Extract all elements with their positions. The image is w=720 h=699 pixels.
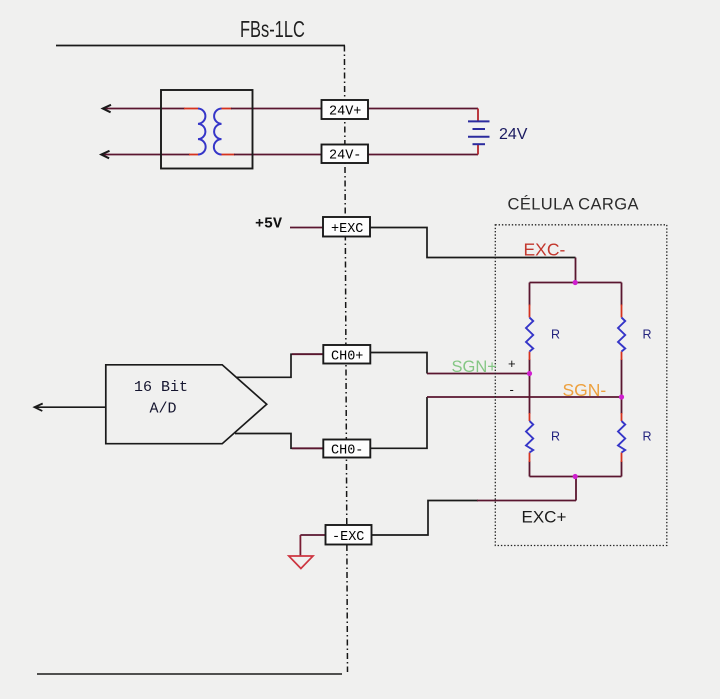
svg-text:24V: 24V xyxy=(499,126,528,143)
node: bridge bottom xyxy=(573,474,578,479)
svg-text:R: R xyxy=(551,430,560,444)
wire: A/D output xyxy=(35,406,106,408)
svg-text:-: - xyxy=(510,382,514,397)
svg-text:+5V: +5V xyxy=(255,216,282,233)
svg-text:FBs-1LC: FBs-1LC xyxy=(240,17,305,42)
svg-text:+EXC: +EXC xyxy=(331,222,363,237)
svg-text:CÉLULA CARGA: CÉLULA CARGA xyxy=(508,195,639,214)
svg-text:R: R xyxy=(551,328,560,342)
bottom rail xyxy=(37,673,342,675)
A/D converter block xyxy=(106,365,267,444)
svg-text:EXC-: EXC- xyxy=(524,240,566,260)
battery B1 24V xyxy=(468,109,490,155)
node: bridge top xyxy=(573,280,578,285)
wire: -EXC to bridge bottom (EXC+) xyxy=(371,477,576,536)
wire: A/D to CH0+ xyxy=(236,354,324,377)
arrow: lower-left output xyxy=(101,151,109,159)
wire: CH0- to bridge (SGN-) xyxy=(370,397,622,448)
wire: 24V- line (transformer to battery) xyxy=(102,154,479,156)
transformer T1 box xyxy=(161,90,253,169)
svg-text:16 Bit: 16 Bit xyxy=(134,379,188,396)
wire: +5V to +EXC xyxy=(290,227,323,229)
transformer T1 secondary winding xyxy=(214,109,222,155)
svg-text:R: R xyxy=(643,430,652,444)
node: bridge left xyxy=(527,371,532,376)
arrow: top-left output xyxy=(103,105,111,113)
resistor R (lower left) xyxy=(526,413,533,462)
resistor R (upper right) xyxy=(618,305,625,361)
wire: 24V+ line (transformer to battery) xyxy=(103,108,478,110)
wire: +EXC to bridge top (EXC-) xyxy=(370,228,576,258)
svg-text:EXC+: EXC+ xyxy=(522,508,567,527)
wire: A/D to CH0- xyxy=(235,434,324,449)
svg-text:SGN-: SGN- xyxy=(563,380,607,400)
node: bridge right xyxy=(619,394,624,399)
svg-text:R: R xyxy=(643,328,652,342)
ground xyxy=(289,556,313,569)
load cell dotted enclosure xyxy=(495,225,667,546)
resistor R (upper left) xyxy=(526,305,533,361)
svg-text:+: + xyxy=(508,356,516,371)
svg-text:24V+: 24V+ xyxy=(329,105,361,120)
bridge outline xyxy=(530,283,622,477)
wire: CH0+ to bridge (SGN+) xyxy=(370,353,530,374)
wire: EXC- riser xyxy=(575,258,577,283)
transformer T1 primary winding xyxy=(198,109,206,155)
dash-dot bus line xyxy=(344,46,347,673)
svg-text:-EXC: -EXC xyxy=(332,530,364,545)
terminal CH0- xyxy=(323,440,370,459)
resistor R (lower right) xyxy=(618,413,625,462)
terminal -EXC xyxy=(326,525,372,545)
arrow: A/D output xyxy=(35,404,43,412)
svg-text:CH0-: CH0- xyxy=(331,444,363,459)
terminal +EXC xyxy=(323,217,370,237)
terminal 24V- xyxy=(322,145,369,164)
svg-text:24V-: 24V- xyxy=(329,149,361,164)
top supply rail xyxy=(56,45,345,47)
svg-text:SGN+: SGN+ xyxy=(452,358,497,376)
label FBs-1LC xyxy=(240,17,305,42)
svg-text:A/D: A/D xyxy=(150,401,177,418)
wire: -EXC to ground xyxy=(300,535,326,556)
terminal CH0+ xyxy=(323,345,370,365)
terminal 24V+ xyxy=(322,100,369,120)
svg-text:CH0+: CH0+ xyxy=(331,350,363,365)
